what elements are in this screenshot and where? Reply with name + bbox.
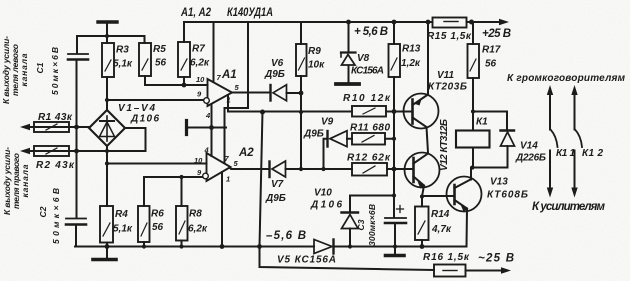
- ground bar mid: [185, 121, 188, 135]
- wire +5.6V drop to A2 supply: [225, 22, 249, 162]
- ground below C3: [394, 247, 396, 255]
- wire T stem to R3: [106, 24, 108, 44]
- svg-text:V13: V13: [490, 177, 508, 188]
- resistor R14: [415, 207, 429, 241]
- resistor R12: [352, 163, 387, 176]
- resistor R13: [389, 44, 401, 77]
- wire R17 top lead: [472, 22, 474, 44]
- wire V9 to R11 / R11 to node: [347, 138, 394, 140]
- diode V9: [326, 131, 328, 147]
- wire V8 top lead: [348, 22, 350, 52]
- ground T-bar top left: [98, 20, 117, 23]
- svg-text:R1 43к: R1 43к: [38, 112, 73, 123]
- svg-text:Д9Б: Д9Б: [303, 129, 324, 140]
- svg-text:V14: V14: [520, 141, 538, 152]
- op-amp A1: [208, 79, 233, 106]
- wire R7 bottom lead: [183, 77, 185, 85]
- svg-text:R12 62к: R12 62к: [347, 153, 391, 164]
- wire R9 bottom vertical: [300, 76, 302, 169]
- svg-text:К1: К1: [476, 117, 488, 128]
- wire input arrow R2: [27, 150, 107, 152]
- diode bridge V1-V4: [89, 110, 125, 146]
- svg-text:R15 1,5к: R15 1,5к: [427, 31, 472, 42]
- svg-text:Д9Б: Д9Б: [265, 193, 286, 204]
- wire R8 top lead: [181, 177, 183, 206]
- svg-text:R14: R14: [431, 209, 450, 220]
- wire C1/R3/R5 top link: [77, 36, 145, 53]
- svg-text:V8: V8: [357, 53, 370, 64]
- svg-text:–5,6 В: –5,6 В: [266, 230, 306, 242]
- svg-text:5,1к: 5,1к: [113, 224, 133, 235]
- wire R3 bottom to bridge: [106, 77, 108, 110]
- relay contact K1.2: [574, 89, 576, 130]
- wire input arrow R1: [27, 126, 89, 128]
- wire A2 pin10 input: [107, 163, 207, 165]
- wire R10 to V11 base: [386, 111, 413, 113]
- wire V6 to node: [287, 92, 302, 94]
- resistor R8: [176, 206, 188, 241]
- svg-text:R9: R9: [308, 46, 321, 57]
- svg-text:1: 1: [227, 96, 231, 105]
- wire V12 emitter node: [422, 186, 455, 207]
- svg-text:V5 КС156А: V5 КС156А: [277, 255, 336, 266]
- svg-text:С2: С2: [38, 206, 48, 217]
- wire -25V lower rail: [260, 247, 503, 271]
- capacitor C1: [68, 53, 88, 55]
- svg-text:R2 43к: R2 43к: [36, 160, 75, 171]
- wire R14 bottom: [421, 240, 423, 247]
- wire V11 emitter lead: [427, 22, 429, 95]
- svg-text:канала: канала: [20, 164, 30, 197]
- transistor V13: [447, 177, 482, 212]
- wire R12 to V12 base: [387, 168, 414, 170]
- svg-text:К140УД1А: К140УД1А: [227, 7, 273, 19]
- svg-text:канала: канала: [19, 53, 29, 86]
- node -25V arrow: [501, 267, 511, 273]
- svg-text:10к: 10к: [308, 60, 325, 71]
- resistor R5: [139, 43, 151, 76]
- svg-text:КТ203Б: КТ203Б: [428, 82, 467, 93]
- wire V9 down to A2 out: [324, 139, 328, 169]
- wire -5.6V rail: [75, 246, 467, 248]
- wire R6 bottom: [143, 242, 145, 247]
- svg-text:4,7к: 4,7к: [431, 224, 452, 235]
- svg-text:1: 1: [226, 175, 230, 184]
- wire V7 to R12: [286, 168, 353, 170]
- node left input label lower: [2, 147, 30, 215]
- wire C2 bottom lead: [75, 225, 76, 247]
- wire relay top branch to V14: [473, 112, 507, 130]
- resistor R11: [352, 133, 385, 145]
- svg-text:R17: R17: [482, 45, 501, 56]
- wire A2 pin1 down: [221, 172, 223, 247]
- wire A2 output: [231, 168, 269, 171]
- svg-text:А2: А2: [238, 147, 254, 159]
- svg-text:1,2к: 1,2к: [401, 58, 421, 69]
- svg-text:V10: V10: [314, 188, 332, 199]
- wire relay bottom: [473, 148, 508, 168]
- svg-text:V1–V4: V1–V4: [118, 103, 155, 114]
- resistor R16: [434, 265, 466, 277]
- svg-text:+ 5,6 В: + 5,6 В: [354, 26, 388, 38]
- svg-text:10: 10: [196, 75, 205, 84]
- svg-text:V6: V6: [271, 58, 284, 69]
- svg-text:А1, А2: А1, А2: [180, 7, 211, 19]
- svg-text:56: 56: [485, 59, 497, 70]
- diode V14: [501, 129, 515, 131]
- wire R9 top lead: [300, 22, 302, 44]
- svg-text:R5: R5: [153, 44, 166, 55]
- svg-text:С1: С1: [35, 62, 45, 73]
- diode V7: [268, 162, 270, 178]
- wire A1 pin4 to A2 pin4: [211, 104, 213, 156]
- wire R5 bottom / A1 pin10 wire: [145, 76, 208, 85]
- svg-text:6,2к: 6,2к: [188, 224, 208, 235]
- svg-text:К1 1: К1 1: [556, 148, 575, 159]
- resistor R10: [352, 106, 386, 117]
- resistor R3: [102, 43, 114, 77]
- svg-text:R6: R6: [151, 209, 164, 220]
- capacitor C3: [385, 217, 406, 219]
- wire A1 output: [232, 92, 269, 94]
- svg-text:КТ608Б: КТ608Б: [487, 190, 528, 201]
- svg-text:R8: R8: [189, 209, 202, 220]
- wire A1 pin1 to R10 line: [228, 96, 352, 112]
- svg-text:56: 56: [155, 58, 167, 69]
- svg-text:4: 4: [205, 111, 211, 120]
- resistor R1: [34, 122, 69, 132]
- svg-text:~25 В: ~25 В: [478, 253, 514, 265]
- svg-text:R11 680: R11 680: [350, 123, 390, 134]
- capacitor C2: [66, 218, 86, 220]
- wire R13 top lead: [393, 22, 395, 44]
- svg-text:4: 4: [204, 146, 210, 155]
- resistor R2: [34, 146, 69, 156]
- svg-text:V7: V7: [271, 179, 284, 190]
- svg-text:К усилителям: К усилителям: [532, 201, 605, 213]
- svg-text:5,1к: 5,1к: [113, 59, 133, 70]
- wire R6 top to A2 pin9: [144, 177, 204, 206]
- svg-text:Д9Б: Д9Б: [264, 69, 285, 80]
- resistor R7: [178, 42, 190, 77]
- svg-text:С3: С3: [356, 219, 366, 230]
- relay K1 coil: [456, 131, 490, 148]
- zener V8: [341, 51, 356, 53]
- svg-text:V9: V9: [321, 117, 334, 128]
- svg-text:+25 В: +25 В: [482, 28, 511, 40]
- svg-text:10: 10: [194, 156, 203, 165]
- wire R7 top lead: [183, 22, 185, 42]
- svg-text:56: 56: [152, 222, 164, 233]
- wire R8 bottom: [181, 241, 183, 247]
- wire A1 pin7 stub: [213, 22, 215, 82]
- wire V10 top link: [350, 196, 394, 212]
- diode V6: [269, 85, 271, 101]
- svg-text:К громкоговорителям: К громкоговорителям: [507, 73, 626, 84]
- wire node drop to -5.6 rail: [260, 112, 263, 247]
- svg-text:Д226Б: Д226Б: [515, 153, 546, 164]
- ground below V8: [336, 82, 359, 86]
- op-amp A2: [207, 153, 231, 181]
- node left input label upper: [1, 36, 29, 104]
- transistor V11: [404, 94, 439, 129]
- svg-text:V12 КТ312Б: V12 КТ312Б: [439, 119, 450, 171]
- diode V5: [314, 240, 332, 254]
- svg-text:V11: V11: [437, 70, 454, 81]
- ground below R4: [106, 247, 108, 259]
- wire node vertical R13-C3: [393, 77, 395, 217]
- wire bridge bottom to R4: [106, 146, 108, 206]
- wire V10 bottom: [349, 229, 351, 247]
- svg-text:R7: R7: [192, 44, 205, 55]
- svg-text:К1 2: К1 2: [582, 148, 603, 159]
- resistor R15: [433, 18, 467, 28]
- svg-text:R3: R3: [116, 45, 129, 56]
- wire analog ground: [188, 127, 226, 129]
- relay contact K1.1: [549, 89, 551, 130]
- wire C3 bottom: [394, 223, 396, 247]
- svg-text:300мк×6В: 300мк×6В: [367, 204, 377, 246]
- wire C1 to input node: [76, 61, 78, 218]
- node +25V arrow: [499, 19, 509, 25]
- svg-text:6,2к: 6,2к: [190, 58, 210, 69]
- svg-text:КС156А: КС156А: [351, 66, 384, 77]
- wire R4 bottom: [106, 243, 108, 247]
- resistor R6: [138, 206, 150, 242]
- diode V10: [342, 211, 359, 213]
- svg-text:А1: А1: [221, 69, 237, 81]
- resistor R9: [296, 44, 307, 76]
- resistor R4: [100, 206, 113, 243]
- svg-text:Д106: Д106: [130, 114, 159, 125]
- wire bridge right loop: [107, 128, 146, 151]
- transistor V12: [405, 153, 440, 188]
- svg-text:R16 1,5к: R16 1,5к: [423, 252, 470, 263]
- wire R17 to relay: [472, 78, 474, 131]
- svg-text:R13: R13: [402, 44, 421, 55]
- resistor R17: [468, 44, 480, 78]
- wire top +5.6V rail: [184, 21, 501, 23]
- svg-text:R4: R4: [115, 209, 128, 220]
- wire A1 pin9 input: [107, 99, 204, 101]
